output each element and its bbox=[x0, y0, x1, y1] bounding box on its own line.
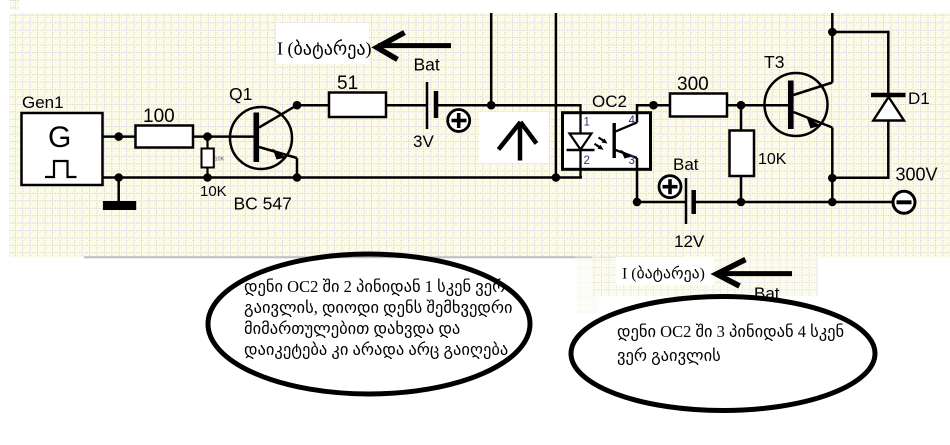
OC2 pin4 lead bbox=[637, 105, 670, 122]
svg-text:Bat: Bat bbox=[414, 55, 440, 75]
left note text bbox=[244, 277, 513, 359]
current arrow top bbox=[377, 33, 451, 60]
svg-text:BC 547: BC 547 bbox=[234, 194, 292, 214]
svg-text:100: 100 bbox=[143, 106, 175, 127]
top rail Q1 to battery bbox=[297, 104, 427, 107]
node dot base branch bbox=[203, 132, 212, 141]
svg-text:10K: 10K bbox=[758, 151, 787, 168]
wire Gen1 out to R1 bbox=[102, 135, 136, 138]
OC2 LED bbox=[567, 134, 595, 151]
right note text bbox=[617, 322, 844, 365]
OC2 pin2 lead bbox=[579, 150, 581, 178]
top current annotation white box bbox=[276, 23, 369, 64]
optocoupler OC2 bbox=[563, 92, 651, 169]
svg-text:D1: D1 bbox=[908, 89, 930, 108]
OC2 pin3 lead bbox=[636, 158, 639, 202]
svg-text:Bat: Bat bbox=[673, 155, 699, 174]
node dot emitter rail bbox=[828, 198, 837, 207]
svg-text:ვერ გაივლის: ვერ გაივლის bbox=[617, 346, 721, 365]
plus terminal marker 12V bbox=[659, 176, 681, 198]
resistor 51 bbox=[329, 73, 386, 117]
node dot 10K rail bbox=[737, 198, 746, 207]
OC2 phototransistor bbox=[613, 123, 638, 159]
node dot at Gen1 output bbox=[114, 132, 123, 141]
svg-text:300V: 300V bbox=[896, 165, 938, 185]
node dot OC2 pin3 rail bbox=[633, 198, 642, 207]
current arrow lower bbox=[717, 260, 793, 287]
generator Gen1 box bbox=[22, 113, 103, 185]
OC2 pin1 lead bbox=[579, 104, 581, 134]
right note ellipse bbox=[571, 297, 875, 411]
current direction arrow (up) bbox=[479, 112, 549, 163]
node dot D1 top branch bbox=[828, 28, 837, 37]
OC2 light arrows bbox=[595, 138, 608, 150]
T3 collector wire up bbox=[831, 13, 834, 83]
node dot Q1 emitter bbox=[293, 173, 302, 182]
grey rule under grid bbox=[84, 256, 683, 258]
plus terminal marker 3V bbox=[448, 110, 470, 132]
svg-text:Gen1: Gen1 bbox=[22, 93, 64, 112]
bottom left rail bbox=[102, 176, 582, 179]
wire battery to OC2 pin1 bbox=[436, 104, 582, 107]
ground bbox=[103, 178, 136, 211]
svg-text:4: 4 bbox=[629, 115, 636, 127]
D1 branch wires bbox=[832, 32, 888, 178]
svg-text:I (ბატარეა): I (ბატარეა) bbox=[622, 265, 705, 283]
svg-text:მიმართულებით დახვდა და: მიმართულებით დახვდა და bbox=[244, 319, 460, 338]
svg-text:Q1: Q1 bbox=[229, 84, 252, 104]
node dot gnd bbox=[114, 173, 123, 182]
grid patch around lower arrow bbox=[592, 255, 818, 296]
minus terminal marker 300V bbox=[893, 165, 938, 214]
svg-text:დაიკეტება კი არადა არც გაიღება: დაიკეტება კი არადა არც გაიღება bbox=[244, 340, 508, 359]
wire R100 to Q1 base bbox=[193, 135, 256, 138]
lower current annotation white box bbox=[616, 257, 714, 285]
node dot T3 base branch bbox=[737, 101, 746, 110]
svg-text:300: 300 bbox=[677, 74, 709, 95]
vertical feed wire 2 bbox=[555, 13, 558, 178]
grid patch strip bbox=[575, 255, 599, 314]
svg-text:1: 1 bbox=[584, 117, 590, 129]
Gen1 pulse symbol bbox=[45, 161, 77, 177]
node dot 10K bottom bbox=[203, 173, 212, 182]
node dot pin4 bbox=[649, 101, 658, 110]
bottom right rail bbox=[635, 201, 686, 204]
vertical feed wire 1 bbox=[490, 13, 493, 105]
svg-text:12V: 12V bbox=[674, 232, 705, 251]
resistor 300 bbox=[670, 74, 727, 117]
svg-text:10K: 10K bbox=[200, 183, 227, 200]
OC2 pin numbers bbox=[584, 115, 636, 167]
svg-text:51: 51 bbox=[337, 73, 358, 94]
node dot feed 2 bbox=[552, 173, 561, 182]
battery Bat 12V bbox=[673, 155, 705, 251]
svg-text:10K: 10K bbox=[215, 157, 225, 163]
svg-text:I (ბატარეა): I (ბატარეა) bbox=[277, 39, 371, 60]
resistor 10K (T3 base) bbox=[730, 105, 787, 202]
svg-text:2: 2 bbox=[584, 155, 590, 167]
svg-text:3: 3 bbox=[629, 155, 635, 167]
node dot Q1 collector bbox=[293, 101, 302, 110]
svg-text:დენი OC2 ში 3 პინიდან 4 სკენ: დენი OC2 ში 3 პინიდან 4 სკენ bbox=[617, 322, 844, 341]
transistor T3 bbox=[765, 73, 833, 136]
grid notch top-left bbox=[10, 0, 19, 10]
diode D1 bbox=[871, 89, 930, 121]
svg-text:3V: 3V bbox=[413, 132, 434, 151]
svg-text:OC2: OC2 bbox=[592, 92, 627, 111]
left note ellipse bbox=[208, 254, 530, 394]
svg-text:დენი OC2 ში 2 პინიდან 1 სკენ ვ: დენი OC2 ში 2 პინიდან 1 სკენ ვერ bbox=[244, 277, 505, 296]
T3 emitter wire down bbox=[831, 128, 834, 203]
svg-text:გაივლის, დიოდი დენს შემხვედრი: გაივლის, დიოდი დენს შემხვედრი bbox=[244, 298, 513, 317]
wire 300 to T3 base bbox=[727, 104, 790, 107]
wire battery 12V to minus terminal bbox=[694, 201, 894, 204]
transistor Q1 bbox=[230, 105, 297, 177]
node dot feed 1 bbox=[487, 101, 496, 110]
svg-text:T3: T3 bbox=[764, 52, 784, 72]
svg-text:G: G bbox=[48, 121, 71, 154]
resistor 10K (base pulldown) bbox=[200, 137, 227, 200]
node dot D1 bottom branch bbox=[828, 174, 837, 183]
resistor 100 bbox=[136, 106, 194, 148]
graph-paper grid area bbox=[9, 13, 950, 258]
battery Bat 3V bbox=[413, 82, 436, 151]
